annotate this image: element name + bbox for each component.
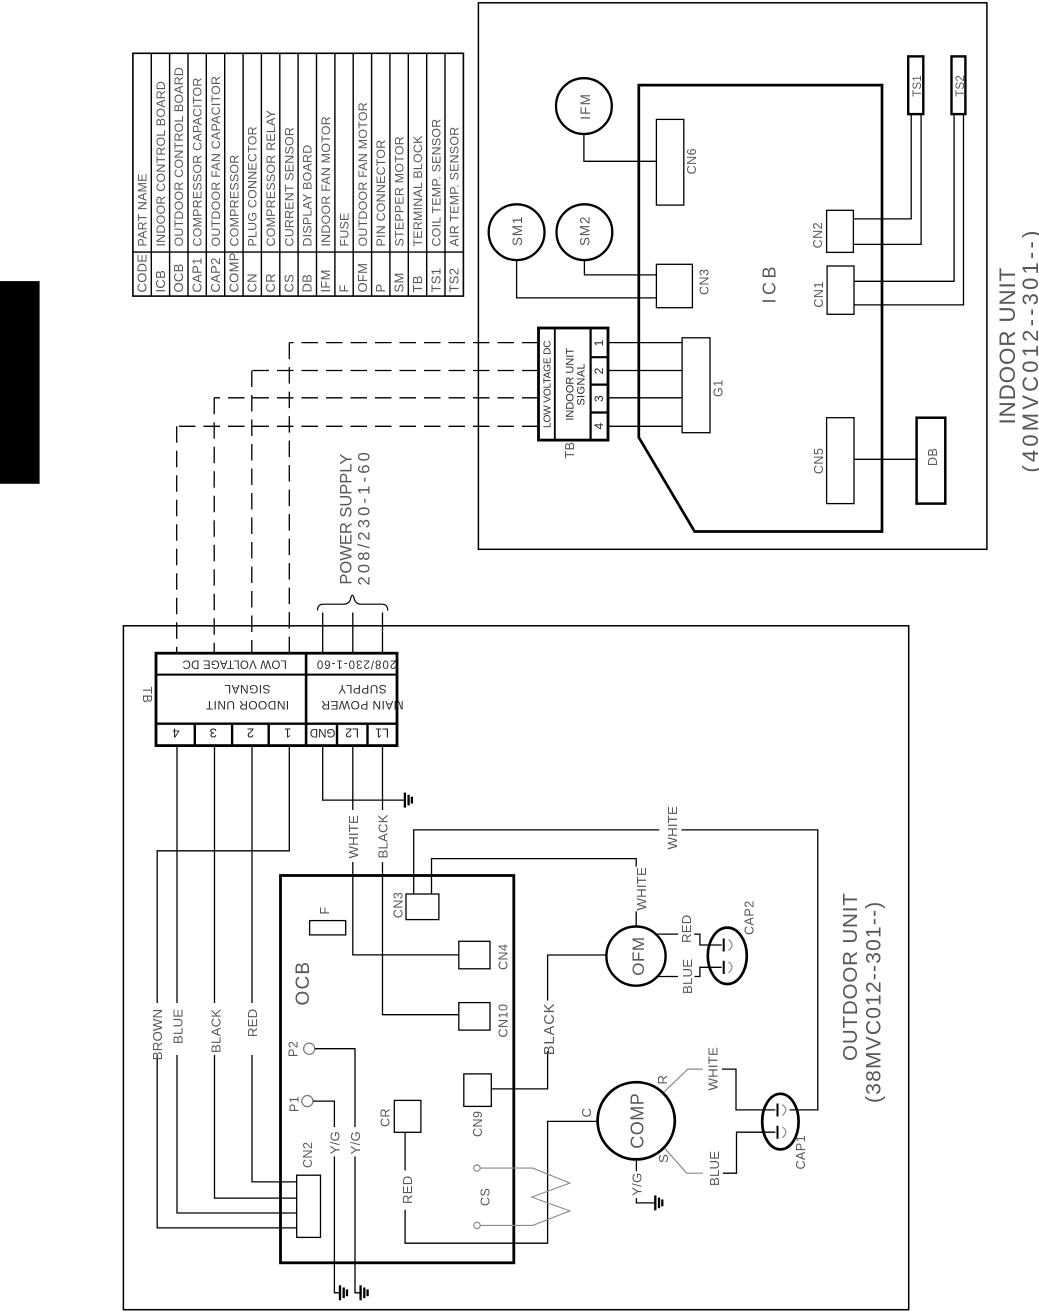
svg-text:OCB: OCB bbox=[293, 961, 314, 1006]
svg-text:3: 3 bbox=[592, 395, 606, 402]
svg-text:4: 4 bbox=[592, 423, 606, 430]
svg-text:DISPLAY BOARD: DISPLAY BOARD bbox=[301, 145, 315, 247]
wire terminal4 BLUE to CN2 bbox=[177, 746, 297, 1213]
svg-text:TERMINAL BLOCK: TERMINAL BLOCK bbox=[411, 135, 425, 247]
svg-text:PART NAME: PART NAME bbox=[136, 173, 150, 246]
wire IFM to CN6 bbox=[584, 134, 657, 161]
svg-text:CN2: CN2 bbox=[811, 222, 825, 249]
svg-text:P: P bbox=[373, 284, 388, 293]
svg-text:CN1: CN1 bbox=[812, 281, 826, 308]
outdoor fan motor OFM bbox=[606, 927, 665, 986]
svg-text:1: 1 bbox=[284, 725, 291, 740]
svg-text:F: F bbox=[318, 906, 332, 914]
svg-text:DB: DB bbox=[300, 274, 315, 293]
power supply label bbox=[338, 449, 374, 586]
wire P1 Y/G to ground bbox=[313, 1101, 347, 1300]
wire CR RED to COMP C via CS bbox=[405, 1121, 597, 1243]
dashed interconnect wire 1 (indoor TB1 to outdoor TB1) bbox=[289, 343, 538, 654]
svg-text:BLUE: BLUE bbox=[680, 959, 695, 994]
stepper motor SM2 bbox=[557, 204, 613, 260]
svg-text:OUTDOOR FAN CAPACITOR: OUTDOOR FAN CAPACITOR bbox=[209, 76, 223, 247]
svg-text:WHITE: WHITE bbox=[346, 815, 361, 859]
svg-text:CAP1: CAP1 bbox=[794, 1135, 808, 1170]
svg-text:BROWN: BROWN bbox=[150, 1009, 165, 1061]
connector CN2 (indoor) bbox=[811, 210, 854, 252]
svg-text:OUTDOOR FAN MOTOR: OUTDOOR FAN MOTOR bbox=[356, 102, 370, 246]
svg-text:CN: CN bbox=[245, 273, 260, 292]
TB outdoor section INDOOR UNIT SIGNAL bbox=[205, 682, 289, 712]
svg-text:PLUG CONNECTOR: PLUG CONNECTOR bbox=[246, 126, 260, 246]
connector CN5 (indoor) bbox=[812, 418, 854, 504]
svg-text:CN10: CN10 bbox=[497, 1004, 511, 1038]
svg-text:G1: G1 bbox=[712, 379, 726, 397]
svg-text:SM1: SM1 bbox=[510, 216, 525, 246]
svg-text:FUSE: FUSE bbox=[338, 212, 352, 246]
plug connector G1 bbox=[682, 338, 726, 433]
svg-text:L2: L2 bbox=[345, 725, 359, 739]
svg-text:SM: SM bbox=[392, 272, 407, 292]
TB outdoor section MAIN POWER SUPPLY bbox=[321, 682, 404, 712]
svg-text:DB: DB bbox=[926, 448, 940, 466]
power supply brace bbox=[318, 595, 388, 610]
svg-text:COMP: COMP bbox=[226, 252, 241, 292]
wire CN3 to CAP1 (long WHITE) bbox=[414, 830, 818, 1110]
svg-text:OFM: OFM bbox=[629, 936, 648, 975]
svg-text:LOW VOLTAGE DC: LOW VOLTAGE DC bbox=[543, 341, 554, 428]
svg-text:CS: CS bbox=[479, 1188, 493, 1206]
wire CN5 to DB bbox=[854, 458, 917, 460]
svg-text:BLACK: BLACK bbox=[208, 1009, 223, 1053]
wire TB2 to G1 bbox=[608, 370, 682, 372]
wire COMP S BLUE to CAP1 bbox=[665, 1132, 775, 1173]
outdoor unit label bbox=[839, 892, 886, 1103]
svg-text:COMP: COMP bbox=[628, 1093, 648, 1149]
svg-text:OFM: OFM bbox=[355, 263, 370, 293]
svg-text:PIN CONNECTOR: PIN CONNECTOR bbox=[374, 140, 388, 247]
wire P2 Y/G to ground bbox=[315, 1049, 368, 1301]
connector CN3 (indoor) bbox=[656, 264, 711, 307]
svg-text:3: 3 bbox=[210, 725, 217, 740]
svg-text:SUPPLY: SUPPLY bbox=[338, 682, 387, 696]
svg-text:CAP2: CAP2 bbox=[208, 257, 223, 292]
wire SM2 to CN3 bbox=[584, 260, 656, 275]
svg-text:Y/G: Y/G bbox=[328, 1131, 343, 1154]
stepper motor SM1 bbox=[489, 204, 545, 260]
svg-text:CN6: CN6 bbox=[685, 148, 699, 175]
svg-text:RED: RED bbox=[400, 1176, 415, 1204]
svg-text:2: 2 bbox=[247, 725, 254, 740]
wire CN1 to TS2 a bbox=[854, 114, 954, 281]
wire TB1 to G1 bbox=[608, 342, 682, 344]
svg-text:WHITE: WHITE bbox=[706, 1047, 721, 1091]
svg-text:RED: RED bbox=[679, 915, 694, 943]
svg-text:CAP1: CAP1 bbox=[190, 257, 205, 292]
svg-text:ICB: ICB bbox=[760, 263, 780, 304]
power feed wire L2 bbox=[352, 613, 354, 654]
capacitor CAP1 bbox=[762, 1094, 808, 1170]
wire TB4 to G1 bbox=[608, 425, 682, 427]
svg-text:OCB: OCB bbox=[171, 263, 186, 292]
svg-text:CN4: CN4 bbox=[497, 943, 511, 970]
wire CN2 to TS1 b bbox=[853, 114, 921, 244]
svg-text:S: S bbox=[656, 1154, 671, 1163]
svg-text:TS2: TS2 bbox=[447, 268, 462, 293]
svg-text:OUTDOOR CONTROL BOARD: OUTDOOR CONTROL BOARD bbox=[172, 67, 186, 247]
wire CN1 to TS2 b bbox=[854, 114, 964, 305]
svg-text:(38MVC012--301--): (38MVC012--301--) bbox=[863, 901, 886, 1103]
svg-text:LOW VOLTAGE DC: LOW VOLTAGE DC bbox=[182, 658, 287, 670]
svg-text:4: 4 bbox=[172, 725, 179, 740]
svg-text:INDOOR UNIT: INDOOR UNIT bbox=[205, 698, 289, 712]
dashed interconnect wire 2 bbox=[252, 371, 539, 654]
wire COMP R WHITE to CAP1 bbox=[664, 1069, 775, 1110]
svg-text:Y/G: Y/G bbox=[630, 1173, 645, 1196]
svg-text:ICB: ICB bbox=[153, 270, 168, 293]
svg-text:RED: RED bbox=[245, 1009, 260, 1037]
svg-text:208/230-1-60: 208/230-1-60 bbox=[316, 658, 396, 670]
connector CN1 (indoor) bbox=[812, 266, 854, 314]
svg-text:COMPRESSOR RELAY: COMPRESSOR RELAY bbox=[264, 110, 278, 247]
svg-text:R: R bbox=[655, 1075, 670, 1085]
svg-text:CN3: CN3 bbox=[698, 268, 712, 295]
legend table bbox=[133, 53, 464, 296]
svg-text:CR: CR bbox=[263, 273, 278, 292]
svg-text:INDOOR FAN MOTOR: INDOOR FAN MOTOR bbox=[319, 116, 333, 246]
wire CN3 to OFM (WHITE) bbox=[432, 859, 637, 927]
wire L1 BLACK to CN10 bbox=[383, 746, 459, 1015]
svg-text:TS1: TS1 bbox=[428, 268, 443, 293]
svg-text:1: 1 bbox=[592, 339, 606, 346]
wire TB3 to G1 bbox=[608, 397, 682, 399]
TB indoor column text INDOOR UNIT SIGNAL bbox=[565, 348, 588, 421]
indoor unit enclosure box bbox=[478, 3, 987, 550]
svg-text:TB: TB bbox=[140, 686, 154, 703]
ground symbol at COMP (Y/G) bbox=[636, 1159, 662, 1210]
wire terminal2 RED to CN2 bbox=[252, 746, 297, 1182]
svg-text:OUTDOOR UNIT: OUTDOOR UNIT bbox=[839, 892, 862, 1061]
connector CN6 bbox=[656, 119, 699, 205]
svg-text:CAP2: CAP2 bbox=[743, 900, 757, 935]
ground symbol at GND terminal bbox=[323, 746, 412, 808]
svg-text:COMPRESSOR CAPACITOR: COMPRESSOR CAPACITOR bbox=[191, 77, 205, 246]
outdoor unit enclosure box bbox=[123, 626, 908, 1310]
indoor control board ICB outline bbox=[639, 85, 882, 531]
svg-text:SIGNAL: SIGNAL bbox=[576, 363, 588, 406]
svg-text:GND: GND bbox=[310, 726, 336, 738]
connector CN4 bbox=[459, 941, 511, 970]
svg-text:CN9: CN9 bbox=[471, 1110, 485, 1137]
svg-text:WHITE: WHITE bbox=[634, 867, 649, 911]
dashed interconnect wire 3 bbox=[214, 398, 538, 653]
svg-text:COMPRESSOR: COMPRESSOR bbox=[227, 155, 241, 247]
svg-text:TS1: TS1 bbox=[912, 75, 924, 97]
svg-text:C: C bbox=[579, 1108, 594, 1118]
wire CN2 to TS1 a bbox=[853, 114, 911, 219]
dashed interconnect wire 4 bbox=[177, 426, 539, 653]
svg-text:IFM: IFM bbox=[318, 269, 333, 292]
svg-text:L1: L1 bbox=[375, 725, 389, 739]
svg-text:(40MVC012--301--): (40MVC012--301--) bbox=[1018, 227, 1039, 472]
connector CN2 (outdoor) bbox=[297, 1141, 321, 1237]
power feed wire GND bbox=[322, 613, 324, 654]
coil temp sensor TS1 bbox=[908, 56, 924, 114]
compressor relay CR bbox=[379, 1100, 421, 1132]
svg-text:F: F bbox=[337, 284, 352, 292]
svg-text:208/230-1-60: 208/230-1-60 bbox=[356, 449, 374, 586]
power feed wire L1 bbox=[382, 613, 384, 654]
indoor unit label bbox=[995, 227, 1039, 472]
svg-text:BLUE: BLUE bbox=[171, 1009, 186, 1044]
svg-text:WHITE: WHITE bbox=[665, 806, 680, 850]
connector CN3 (outdoor) bbox=[392, 892, 439, 920]
indoor fan motor IFM bbox=[556, 78, 612, 134]
black side tab bar bbox=[0, 281, 40, 484]
svg-text:CN2: CN2 bbox=[301, 1141, 315, 1168]
svg-text:STEPPER MOTOR: STEPPER MOTOR bbox=[393, 136, 407, 246]
svg-text:TB: TB bbox=[563, 442, 577, 459]
svg-text:P2: P2 bbox=[287, 1041, 301, 1057]
legend table text bbox=[135, 67, 462, 293]
wire OFM RED to CAP2 bbox=[656, 934, 722, 945]
svg-text:BLUE: BLUE bbox=[707, 1151, 722, 1186]
svg-text:INDOOR CONTROL BOARD: INDOOR CONTROL BOARD bbox=[154, 81, 168, 247]
wire terminal3 BLACK to CN2 bbox=[215, 746, 297, 1199]
current sensor CS bbox=[474, 1165, 570, 1229]
terminal block TB (outdoor) bbox=[156, 653, 397, 745]
wire OFM BLUE to CAP2 bbox=[657, 967, 721, 976]
fuse F bbox=[310, 906, 346, 935]
terminal block TB (indoor) bbox=[539, 328, 609, 440]
svg-text:IFM: IFM bbox=[578, 93, 593, 120]
wire CN9 BLACK to OFM bbox=[491, 955, 606, 1089]
svg-text:CURRENT SENSOR: CURRENT SENSOR bbox=[282, 127, 296, 247]
outdoor control board OCB bbox=[281, 876, 514, 1263]
svg-text:SIGNAL: SIGNAL bbox=[224, 682, 270, 696]
connector CN9 bbox=[464, 1074, 492, 1137]
capacitor CAP2 bbox=[708, 900, 757, 984]
svg-text:BLACK: BLACK bbox=[542, 1003, 558, 1056]
compressor COMP bbox=[598, 1082, 675, 1159]
svg-text:CR: CR bbox=[379, 1108, 393, 1127]
display board DB bbox=[917, 418, 946, 504]
svg-text:CN3: CN3 bbox=[392, 892, 406, 919]
connector CN10 bbox=[459, 1003, 511, 1038]
air temp sensor TS2 bbox=[952, 56, 968, 114]
svg-text:P1: P1 bbox=[288, 1096, 302, 1112]
wire L2 WHITE to CN4 bbox=[353, 746, 459, 955]
svg-text:TS2: TS2 bbox=[955, 75, 967, 97]
wire terminal1 BROWN to CN2 bbox=[157, 746, 297, 1228]
svg-text:Y/G: Y/G bbox=[348, 1131, 363, 1154]
svg-text:TB: TB bbox=[410, 275, 425, 292]
pin connector P1 bbox=[288, 1096, 314, 1113]
svg-text:AIR TEMP. SENSOR: AIR TEMP. SENSOR bbox=[448, 127, 462, 247]
svg-text:MAIN POWER: MAIN POWER bbox=[321, 698, 404, 712]
svg-text:CS: CS bbox=[281, 274, 296, 293]
svg-text:INDOOR UNIT: INDOOR UNIT bbox=[995, 267, 1020, 425]
pin connector P2 bbox=[287, 1041, 315, 1057]
svg-text:2: 2 bbox=[592, 367, 606, 374]
wire SM1 to CN3 bbox=[517, 260, 657, 298]
svg-text:POWER SUPPLY: POWER SUPPLY bbox=[338, 454, 356, 585]
svg-text:CODE: CODE bbox=[135, 254, 150, 293]
svg-text:SM2: SM2 bbox=[578, 216, 593, 246]
svg-text:CN5: CN5 bbox=[812, 448, 826, 475]
svg-text:COIL TEMP. SENSOR: COIL TEMP. SENSOR bbox=[429, 119, 443, 247]
svg-text:BLACK: BLACK bbox=[376, 814, 391, 858]
